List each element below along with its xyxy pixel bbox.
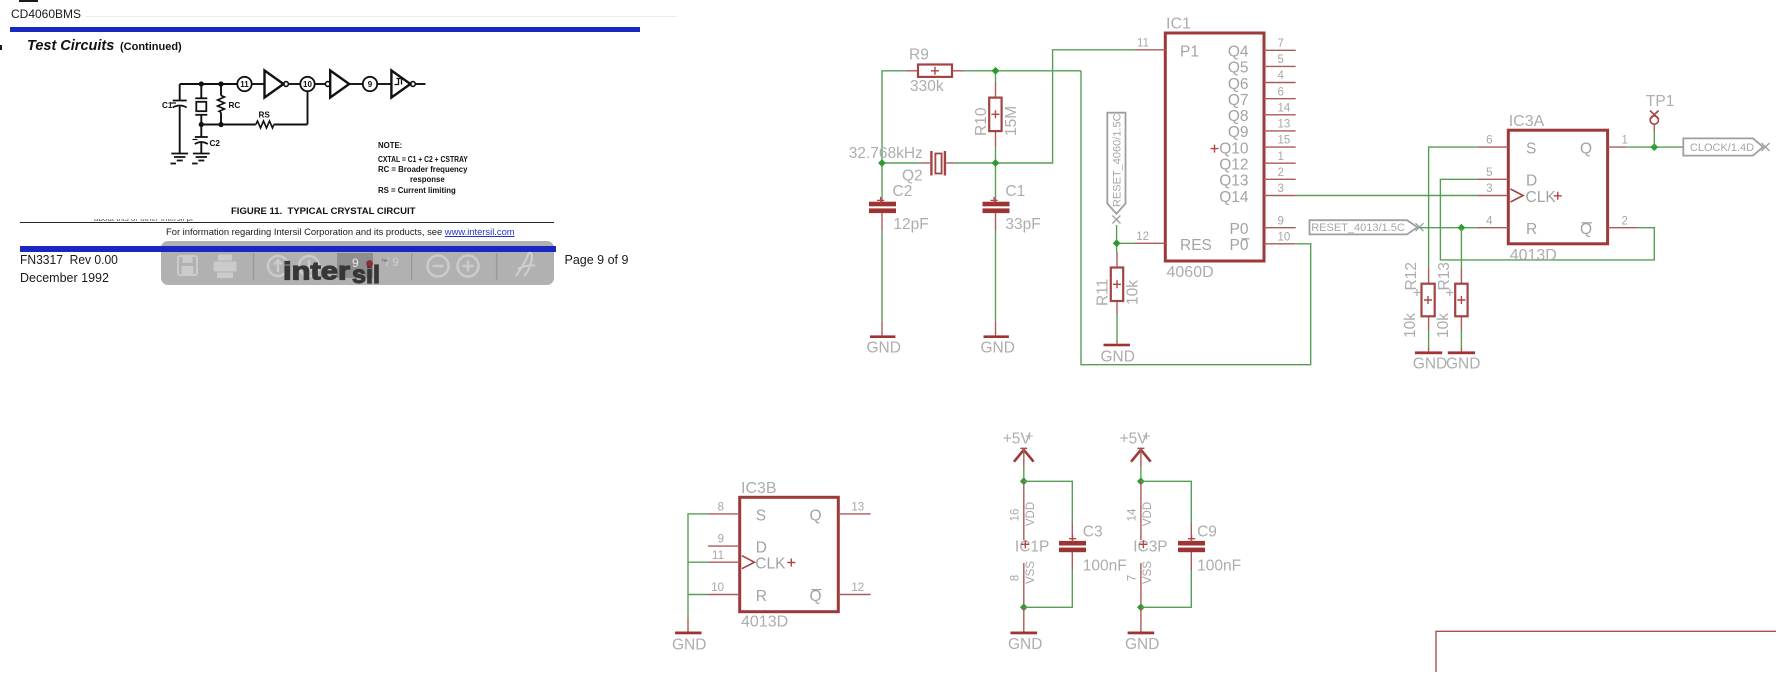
- svg-text:IC3A: IC3A: [1509, 113, 1545, 130]
- wire net P0B long route: [1081, 71, 1311, 365]
- capacitor C2: [869, 183, 929, 233]
- resistor RS (doc): [256, 121, 274, 128]
- svg-text:RESET_4060/1.5C: RESET_4060/1.5C: [1112, 113, 1124, 207]
- svg-text:Q10: Q10: [1219, 140, 1249, 157]
- wire net RESET_4060 to pin 12: [1117, 242, 1135, 244]
- wire C9 bottom to vss: [1141, 570, 1191, 607]
- svg-text:VSS: VSS: [1142, 561, 1154, 584]
- svg-text:330k: 330k: [910, 78, 944, 95]
- svg-text:R9: R9: [909, 47, 929, 64]
- crystal (doc): [200, 84, 202, 98]
- resistor R11: [1095, 252, 1142, 315]
- svg-text:15M: 15M: [1003, 106, 1020, 136]
- svg-text:RES: RES: [1180, 237, 1212, 254]
- wire net R9 out to vertical drop: [964, 70, 1081, 72]
- ground under R12: [1413, 348, 1447, 373]
- svg-text:4013D: 4013D: [1510, 247, 1557, 264]
- divider: [253, 253, 255, 280]
- IC3B pin Q (13) stub: [809, 502, 870, 525]
- component labels (doc): [162, 101, 270, 148]
- IC3B pin D (9) unconnected stub: [708, 534, 767, 557]
- IC1 right pin names: [1219, 44, 1249, 255]
- wire lower rail: [201, 124, 256, 126]
- divider: [496, 253, 498, 280]
- wire feedback up: [307, 91, 309, 124]
- wire +5V to junction 2: [1140, 467, 1142, 482]
- junction Q node: [1650, 143, 1658, 151]
- node dot D: [218, 122, 223, 127]
- svg-text:VDD: VDD: [1142, 502, 1154, 526]
- wire net CLOCK4060 Q14 to IC3A CLK: [1296, 195, 1477, 197]
- resistor R13: [1435, 262, 1468, 338]
- svg-text:R: R: [1526, 221, 1537, 238]
- svg-text:Q13: Q13: [1219, 173, 1248, 190]
- divider: [411, 253, 413, 280]
- node dot C: [199, 122, 204, 127]
- wire R11 bottom to gnd: [1116, 315, 1118, 340]
- ground (doc) right: [192, 154, 210, 164]
- junction R9 node: [992, 67, 1000, 75]
- wire C1 bottom to gnd: [995, 231, 997, 322]
- svg-text:Q12: Q12: [1219, 157, 1248, 174]
- wire net XTAL1 to crystal: [882, 162, 921, 164]
- svg-text:10k: 10k: [1125, 280, 1142, 305]
- svg-text:2: 2: [1278, 167, 1284, 179]
- crystal Q2: [849, 145, 955, 185]
- svg-text:Q2: Q2: [902, 168, 923, 185]
- IC3B pin R (10): [708, 582, 767, 605]
- wire net RESET_4013 to R pin: [1420, 227, 1477, 229]
- svg-text:Q7: Q7: [1228, 92, 1249, 109]
- IC1 right pin numbers: [1278, 38, 1291, 244]
- svg-text:C9: C9: [1197, 523, 1217, 540]
- wire net XTAL2 crystal to C1 and up to P1: [955, 50, 1136, 163]
- pin circle 11: [237, 77, 251, 91]
- svg-text:CLK: CLK: [755, 556, 786, 573]
- svg-text:9: 9: [718, 534, 724, 546]
- wire R13 bottom net: [1460, 331, 1462, 348]
- svg-text:+5V: +5V: [1120, 430, 1149, 447]
- ground (doc) left: [171, 154, 189, 164]
- svg-text:33pF: 33pF: [1005, 216, 1040, 233]
- ground under R13: [1446, 348, 1480, 373]
- net flag RESET_4060/1.5C: [1107, 113, 1125, 224]
- svg-text:IC1: IC1: [1166, 16, 1191, 33]
- svg-text:C3: C3: [1083, 523, 1103, 540]
- capacitor C1 (doc): [171, 101, 187, 108]
- acrobat logo: [516, 253, 535, 276]
- pin circle 10: [300, 77, 314, 91]
- op IC1 4060D box: [1165, 16, 1264, 282]
- capacitor C1: [983, 183, 1041, 233]
- svg-text:Q: Q: [1580, 221, 1592, 238]
- svg-text:7: 7: [1126, 575, 1138, 581]
- junction vss node 1: [1020, 603, 1028, 611]
- wire to pin circle 9: [349, 83, 363, 85]
- ground under IC3B: [672, 619, 706, 654]
- IC3A pin QB (2): [1580, 215, 1638, 238]
- IC1 pin P1 (11): [1136, 37, 1199, 60]
- svg-text:11: 11: [1137, 37, 1149, 49]
- wire +5V to junction 1: [1023, 467, 1025, 482]
- svg-text:5: 5: [1278, 54, 1284, 66]
- svg-text:IC1P: IC1P: [1015, 539, 1049, 556]
- svg-text:Q: Q: [1580, 141, 1592, 158]
- IC3B pin QB (12) stub: [809, 582, 870, 605]
- wire net XTAL1 top left: [882, 71, 906, 163]
- svg-text:R11: R11: [1095, 279, 1112, 306]
- op IC3A 4013D box: [1508, 113, 1607, 264]
- wire lower rail right: [274, 124, 308, 126]
- svg-text:GND: GND: [1125, 636, 1159, 653]
- page up circle: [268, 256, 288, 276]
- ground under R11: [1101, 340, 1135, 366]
- wire R10 bottom stub net: [995, 147, 997, 163]
- footer right text: [565, 253, 629, 267]
- node dot A: [199, 81, 204, 86]
- svg-text:R13: R13: [1436, 262, 1453, 290]
- NOTE block: [378, 141, 402, 151]
- wire C2 top net: [881, 163, 883, 198]
- svg-text:S: S: [1526, 141, 1536, 158]
- svg-text:Q8: Q8: [1228, 108, 1249, 125]
- ground under IC1P: [1008, 607, 1042, 653]
- capacitor C9: [1178, 523, 1241, 575]
- svg-text:D: D: [1526, 173, 1537, 190]
- svg-text:12: 12: [1136, 231, 1149, 243]
- svg-text:11: 11: [712, 550, 724, 562]
- node dot B: [218, 81, 223, 86]
- page number box: [337, 253, 373, 278]
- svg-text:100nF: 100nF: [1197, 558, 1241, 575]
- inverter 1: [265, 71, 284, 98]
- svg-text:+5V: +5V: [1003, 430, 1032, 447]
- zoom in circle: [458, 256, 479, 277]
- wire net RESET_4060: [1116, 225, 1118, 252]
- svg-text:8: 8: [1009, 575, 1021, 581]
- IC3B pin CLK (11): [708, 550, 795, 573]
- print icon: [214, 255, 237, 279]
- svg-text:10: 10: [711, 582, 724, 594]
- svg-text:VDD: VDD: [1025, 502, 1037, 526]
- wire net R13 drop: [1460, 228, 1462, 268]
- test point TP1: [1646, 93, 1674, 131]
- svg-text:C1: C1: [1005, 183, 1025, 200]
- svg-text:10k: 10k: [1435, 313, 1452, 338]
- wire C1 top net: [995, 163, 997, 198]
- power part IC3P: [1126, 481, 1167, 607]
- svg-text:IC3P: IC3P: [1133, 539, 1167, 556]
- svg-text:S: S: [756, 507, 766, 524]
- svg-text:GND: GND: [1446, 356, 1480, 373]
- wire net S pulldown: [1429, 147, 1477, 268]
- svg-text:4060D: 4060D: [1167, 264, 1214, 281]
- resistor R10: [973, 82, 1020, 147]
- wire IC3B S CLK R tie to gnd: [688, 514, 708, 619]
- pin circle 9: [363, 77, 377, 91]
- svg-text:Q4: Q4: [1228, 44, 1249, 61]
- net flag CLOCK/1.4D: [1683, 138, 1769, 155]
- blue footer bar: [20, 246, 556, 252]
- svg-text:32.768kHz: 32.768kHz: [849, 145, 923, 162]
- IC3A pin Q (1): [1580, 135, 1628, 158]
- supply +5V arrow 2: [1120, 430, 1151, 466]
- inverter 3 (schmitt): [391, 71, 410, 98]
- op IC3B 4013D box: [740, 480, 839, 631]
- svg-text:1: 1: [1622, 135, 1628, 147]
- junction reset 4060 node: [1113, 239, 1121, 247]
- svg-text:12: 12: [851, 582, 864, 594]
- inverter 2: [330, 71, 349, 98]
- page down circle (mostly hidden): [299, 256, 319, 276]
- clipped text remnant row: [94, 219, 194, 222]
- document header text: [11, 7, 81, 21]
- wire net D to QB loop: [1440, 179, 1654, 260]
- svg-text:1: 1: [1278, 151, 1284, 163]
- svg-text:GND: GND: [981, 340, 1015, 357]
- svg-text:13: 13: [851, 502, 864, 514]
- wire C2 bottom to gnd: [881, 231, 883, 322]
- resistor RC (doc): [220, 84, 222, 96]
- zoom out circle: [428, 256, 449, 277]
- wire R10 top stub net: [995, 71, 997, 82]
- red plus before Q10: [1211, 145, 1219, 153]
- wire to pin circle 10: [288, 83, 300, 85]
- svg-text:R: R: [756, 588, 767, 605]
- power part IC1P: [1009, 481, 1049, 607]
- wire TP1 drop: [1653, 129, 1655, 147]
- svg-text:100nF: 100nF: [1083, 558, 1127, 575]
- svg-text:GND: GND: [1101, 349, 1135, 366]
- svg-text:14: 14: [1278, 102, 1291, 114]
- IC3B pin S (8): [708, 502, 766, 525]
- svg-text:TP1: TP1: [1646, 93, 1674, 110]
- ground under IC3P: [1125, 607, 1159, 653]
- IC3A pin R (4): [1477, 215, 1537, 238]
- figure caption: [231, 206, 415, 217]
- junction +5V node 1: [1020, 477, 1028, 485]
- svg-text:P0: P0: [1230, 237, 1249, 254]
- svg-text:8: 8: [718, 502, 724, 514]
- wire to inverter 1: [252, 83, 265, 85]
- svg-text:2: 2: [1622, 215, 1628, 227]
- save icon: [178, 256, 197, 275]
- svg-text:6: 6: [1486, 135, 1492, 147]
- IC3A pin CLK (3): [1477, 183, 1562, 206]
- svg-text:Q6: Q6: [1228, 76, 1249, 93]
- pin labels in circles: [240, 80, 373, 89]
- svg-text:4: 4: [1278, 70, 1285, 82]
- junction +5V node 2: [1137, 477, 1145, 485]
- inverter 2 input bubble: [325, 82, 330, 87]
- junction crystal left node: [878, 159, 886, 167]
- svg-text:10k: 10k: [1402, 313, 1419, 338]
- wire IC3B CLK branch: [688, 561, 708, 563]
- footer left text: [20, 253, 118, 267]
- resistor R9: [906, 47, 964, 96]
- svg-text:4013D: 4013D: [741, 614, 788, 631]
- wire net Q output: [1627, 146, 1683, 148]
- resistor R12: [1402, 262, 1435, 338]
- wire C3 bottom to vss: [1024, 570, 1073, 607]
- svg-text:5: 5: [1486, 167, 1492, 179]
- IC1 pin RES (12): [1135, 231, 1212, 254]
- junction crystal right node: [992, 159, 1000, 167]
- svg-text:IC3B: IC3B: [741, 480, 777, 497]
- svg-text:15: 15: [1278, 135, 1291, 147]
- svg-text:GND: GND: [1008, 636, 1042, 653]
- footer info line: [166, 226, 515, 237]
- svg-text:GND: GND: [672, 637, 706, 654]
- svg-text:14: 14: [1126, 508, 1138, 521]
- capacitor C2 (doc): [200, 125, 202, 137]
- output wire stub: [415, 83, 425, 85]
- svg-text:R10: R10: [973, 107, 990, 136]
- junction reset 4013 node: [1458, 224, 1466, 232]
- svg-text:C2: C2: [893, 183, 913, 200]
- junction vss node 2: [1137, 603, 1145, 611]
- svg-text:CLK: CLK: [1526, 189, 1557, 206]
- svg-text:12pF: 12pF: [893, 216, 928, 233]
- svg-text:VSS: VSS: [1025, 561, 1037, 584]
- wire junction2 to C9: [1141, 481, 1191, 523]
- toolbar overlay: [161, 241, 554, 285]
- supply +5V arrow 1: [1003, 430, 1034, 466]
- svg-text:Q: Q: [809, 588, 821, 605]
- svg-text:7: 7: [1278, 38, 1284, 50]
- wire R12 bottom net: [1428, 331, 1430, 348]
- frame corner: [1436, 631, 1776, 672]
- wire junction1 to C3: [1024, 481, 1073, 523]
- wire left branch down: [179, 84, 181, 100]
- IC3A pin D (5): [1477, 167, 1537, 190]
- wire IC3B R branch: [688, 594, 708, 596]
- svg-text:P0: P0: [1230, 221, 1249, 238]
- IC1 right pin stubs Q4-Q14,P0,P0B: [1264, 50, 1296, 244]
- svg-text:Q9: Q9: [1228, 124, 1249, 141]
- wire to inverter 3: [377, 83, 391, 85]
- blue header bar: [10, 27, 640, 32]
- svg-text:Q5: Q5: [1228, 60, 1249, 77]
- svg-text:Q14: Q14: [1219, 189, 1249, 206]
- ground under C1: [981, 321, 1015, 356]
- ground under C2: [867, 321, 901, 356]
- svg-text:GND: GND: [867, 340, 901, 357]
- svg-text:Q: Q: [809, 507, 821, 524]
- svg-text:CLOCK/1.4D: CLOCK/1.4D: [1690, 142, 1754, 154]
- svg-text:D: D: [756, 540, 767, 557]
- wire top rail: [180, 83, 238, 85]
- svg-text:13: 13: [1278, 119, 1291, 131]
- net flag RESET_4013/1.5C: [1310, 220, 1424, 234]
- svg-text:3: 3: [1278, 183, 1284, 195]
- capacitor C3: [1059, 523, 1127, 575]
- P0 overline: [1242, 238, 1250, 240]
- svg-text:P1: P1: [1180, 43, 1199, 60]
- svg-text:3: 3: [1486, 183, 1492, 195]
- svg-text:10: 10: [1278, 231, 1291, 243]
- wire to inverter 2: [315, 83, 326, 85]
- svg-text:RESET_4013/1.5C: RESET_4013/1.5C: [1311, 222, 1405, 234]
- svg-text:9: 9: [1278, 215, 1284, 227]
- footer rule: [20, 222, 554, 223]
- section heading: [27, 38, 114, 54]
- svg-text:4: 4: [1486, 215, 1493, 227]
- svg-text:16: 16: [1009, 509, 1021, 522]
- IC3A pin S (6): [1477, 135, 1537, 158]
- svg-text:R12: R12: [1403, 262, 1420, 290]
- svg-text:6: 6: [1278, 86, 1284, 98]
- svg-text:GND: GND: [1413, 356, 1447, 373]
